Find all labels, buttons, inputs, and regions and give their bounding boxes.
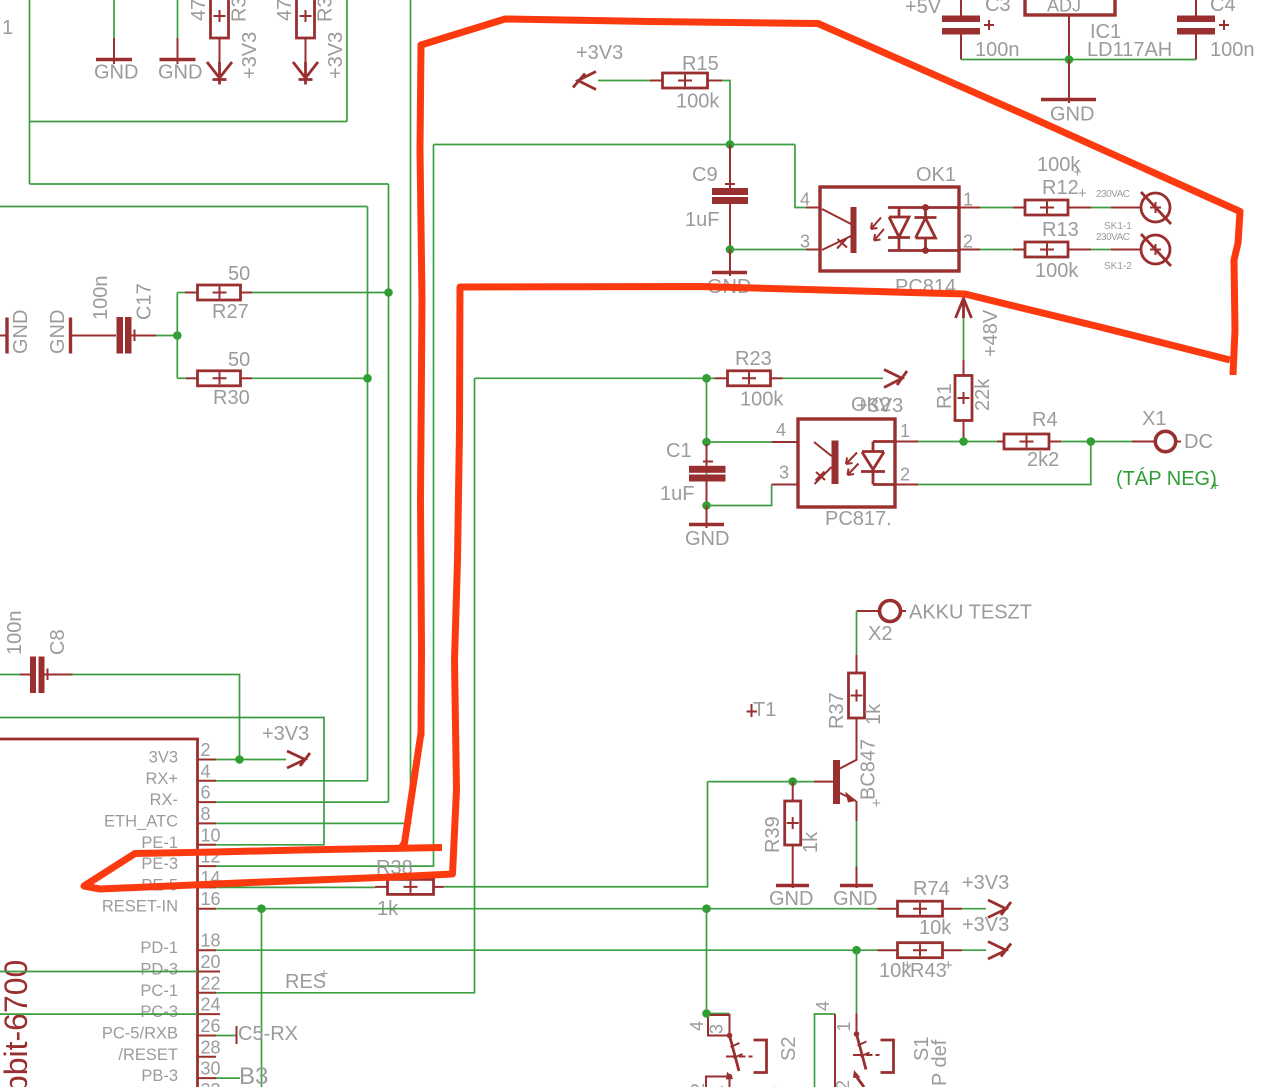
svg-text:50: 50: [228, 349, 250, 371]
capacitor C17: [117, 317, 157, 354]
junction RESET node: [257, 904, 266, 913]
wire R27 to bus: [252, 292, 389, 294]
svg-text:+3V3: +3V3: [262, 723, 309, 745]
svg-text:+: +: [1073, 164, 1082, 181]
svg-text:PE-3: PE-3: [141, 855, 178, 873]
svg-text:Rabbit-6700: Rabbit-6700: [0, 960, 34, 1087]
optocoupler OK2 PC817: [772, 419, 895, 507]
svg-text:C8: C8: [47, 629, 69, 655]
wire R12 to SK1-1: [1091, 207, 1140, 209]
svg-text:T1: T1: [753, 699, 776, 721]
svg-text:GND: GND: [94, 62, 138, 84]
svg-text:PB-3: PB-3: [141, 1067, 178, 1085]
svg-text:ADJ: ADJ: [1047, 0, 1081, 16]
svg-text:3: 3: [779, 463, 789, 483]
junction C9 bottom node: [726, 245, 735, 254]
wire drop to OK1 pin4: [795, 145, 806, 208]
resistor R23: [707, 371, 783, 386]
resistor R12: [1013, 200, 1091, 215]
wire R13 to SK1-2: [1091, 249, 1140, 251]
svg-text:R4: R4: [1032, 409, 1058, 431]
svg-text:50: 50: [228, 263, 250, 285]
svg-text:AKKU TESZT: AKKU TESZT: [909, 602, 1032, 624]
wire PC-3 row: [0, 1013, 198, 1015]
pin 20 stub: [198, 971, 221, 973]
optocoupler OK1 PC814: [806, 187, 959, 271]
svg-text:C9: C9: [692, 164, 718, 186]
svg-text:100n: 100n: [90, 276, 112, 321]
svg-text:+3V3: +3V3: [239, 32, 261, 79]
svg-text:BC847: BC847: [858, 739, 880, 800]
svg-text:22k: 22k: [972, 378, 994, 411]
wire vertical x388.5 to RX-: [388, 184, 390, 802]
capacitor C3: [942, 0, 994, 60]
junction R74-S2 node: [702, 904, 711, 913]
resistor R31 top (cut off): [211, 0, 229, 62]
wire PD-1 row: [216, 949, 878, 951]
svg-text:R31: R31: [229, 0, 251, 22]
junction R23 node: [702, 374, 711, 383]
svg-text:LD117AH: LD117AH: [1087, 39, 1172, 61]
ground GND top 2: [160, 0, 196, 64]
svg-text:GND: GND: [769, 888, 813, 910]
svg-text:3: 3: [707, 1024, 727, 1034]
svg-text:DC: DC: [1184, 431, 1213, 453]
junction C1 bottom node: [702, 501, 711, 510]
svg-text:+: +: [1211, 477, 1219, 493]
svg-text:R15: R15: [682, 53, 719, 75]
svg-text:24: 24: [201, 995, 221, 1015]
wire C3-ADJ-C4 ground rail: [961, 59, 1196, 61]
svg-text:R39: R39: [762, 816, 784, 853]
svg-text:GND: GND: [1050, 104, 1094, 126]
svg-text:100k: 100k: [1035, 260, 1079, 282]
wire box right edge top-left: [346, 0, 348, 122]
origin cross T1: [747, 704, 758, 717]
wire horizontal y206.5: [0, 206, 368, 208]
wire C1 bottom to OK2 pin3: [707, 485, 772, 506]
transistor BC847 T1: [833, 759, 858, 821]
svg-text:+: +: [944, 957, 953, 974]
junction C1 top node: [702, 438, 711, 447]
junction R15 node: [726, 140, 735, 149]
supply +3V3 down arrow 1: [207, 62, 232, 85]
highlighter annotation left tip and inner loop: [84, 287, 1230, 890]
svg-text:RX+: RX+: [145, 770, 178, 788]
svg-text:ETH_ATC: ETH_ATC: [104, 812, 178, 830]
pin 28 stub: [198, 1056, 217, 1058]
wire C1 top to OK2 pin4: [707, 441, 772, 443]
pin 14 stub: [198, 886, 217, 888]
wire box bottom edge top-left: [30, 121, 348, 123]
svg-text:SK1-2: SK1-2: [1104, 261, 1132, 272]
resistor R1: [955, 360, 972, 442]
svg-text:+3V3: +3V3: [856, 395, 903, 417]
wire PE-5 to R38: [216, 886, 375, 888]
wire PD-3 row: [0, 971, 198, 973]
svg-text:RX-: RX-: [150, 791, 178, 809]
junction C17 node: [173, 331, 182, 340]
svg-text:2k2: 2k2: [1027, 449, 1059, 471]
junction base node: [788, 777, 797, 786]
svg-text:+48V: +48V: [980, 309, 1002, 357]
svg-text:2: 2: [201, 740, 211, 760]
resistor R74: [878, 901, 963, 916]
pin 12 stub: [198, 865, 217, 867]
svg-text:8: 8: [201, 804, 211, 824]
wire horizontal y184: [30, 183, 389, 185]
svg-text:26: 26: [201, 1016, 221, 1036]
pin 22 stub: [198, 992, 217, 994]
svg-text:R13: R13: [1042, 219, 1079, 241]
wire S2 drop: [706, 909, 708, 1014]
svg-text:/RESET: /RESET: [118, 1046, 178, 1064]
svg-text:100n: 100n: [4, 611, 26, 656]
pin 30 stub: [198, 1077, 217, 1079]
wire to R30: [177, 377, 186, 379]
ground GND emitter: [840, 884, 873, 887]
svg-text:4: 4: [813, 1001, 833, 1011]
svg-text:OK1: OK1: [916, 164, 956, 186]
wire PC-1 net horizontal y378: [475, 377, 707, 379]
svg-text:R37: R37: [826, 692, 848, 729]
highlighter annotation lower-left loop: [400, 733, 421, 849]
resistor R30: [186, 371, 252, 386]
svg-text:2: 2: [900, 465, 910, 485]
wire C9 to OK1 pin3: [730, 249, 806, 251]
junction S2 node: [702, 1009, 711, 1018]
svg-text:R23: R23: [735, 348, 772, 370]
wire OK1 pin1 to R12: [959, 207, 1013, 209]
supply +3V3 down arrow 2: [293, 62, 318, 85]
supply +3V3 left arrow near R15: [573, 72, 650, 90]
svg-text:1: 1: [834, 1021, 854, 1031]
pin 8 stub: [198, 822, 217, 824]
svg-text:RESET-IN: RESET-IN: [102, 898, 178, 916]
junction X1 node: [1087, 437, 1096, 446]
svg-text:R32: R32: [315, 0, 337, 22]
resistor R15: [650, 73, 722, 88]
wire base net: [708, 781, 834, 783]
supply +48V arrow: [956, 299, 972, 361]
svg-text:C4: C4: [1210, 0, 1236, 16]
capacitor C8: [0, 657, 73, 694]
net tick C5-RX: [236, 1026, 238, 1044]
pin 24 stub: [198, 1013, 221, 1015]
svg-text:GND: GND: [833, 888, 877, 910]
svg-text:2: 2: [833, 1080, 853, 1087]
svg-text:4: 4: [201, 761, 211, 781]
svg-text:GND: GND: [685, 528, 729, 550]
resistor R39: [785, 782, 801, 888]
wire OK2 pin1 to R1 node: [895, 441, 997, 443]
svg-text:1k: 1k: [863, 703, 885, 725]
svg-text:32: 32: [201, 1080, 221, 1087]
svg-text:4: 4: [800, 190, 810, 210]
supply +3V3 arrow R43: [988, 942, 1011, 960]
svg-text:SK1-1: SK1-1: [1104, 221, 1132, 232]
ground GND under IC1: [1041, 60, 1096, 104]
regulator IC1 LD117AH: [1025, 0, 1115, 60]
wire R43 to arrow: [962, 949, 986, 951]
capacitor C9: [712, 145, 748, 250]
svg-text:PE-1: PE-1: [141, 834, 178, 852]
ground GND left side 2 (rotated): [71, 318, 117, 354]
wire X1 stub: [1132, 441, 1155, 443]
svg-text:(TÁP NEG): (TÁP NEG): [1116, 467, 1217, 490]
connector X1: [1155, 431, 1181, 451]
svg-text:10: 10: [201, 825, 221, 845]
wire emitter to GND: [856, 821, 858, 888]
svg-text:R1: R1: [934, 383, 956, 409]
resistor R32 top (cut off): [297, 0, 315, 62]
svg-text:X1: X1: [1142, 408, 1166, 430]
svg-text:+: +: [1078, 185, 1087, 202]
svg-text:C1: C1: [666, 440, 692, 462]
svg-text:+5V: +5V: [905, 0, 942, 18]
svg-text:R43: R43: [910, 960, 947, 982]
svg-text:10k: 10k: [919, 917, 952, 939]
ground GND under C9: [712, 250, 747, 277]
wire R30 to bus: [252, 377, 368, 379]
wire RESET-IN row: [216, 908, 878, 910]
svg-text:1: 1: [2, 17, 13, 39]
ground GND R39: [776, 884, 809, 887]
connector X2: [857, 601, 907, 622]
svg-text:R74: R74: [913, 878, 950, 900]
svg-text:3V3: 3V3: [149, 749, 178, 767]
ground GND top 1: [96, 0, 132, 64]
wire RESET drop: [261, 909, 263, 1087]
svg-text:28: 28: [201, 1037, 221, 1057]
highlighter annotation outer path: [420, 19, 1240, 736]
resistor R37: [849, 673, 865, 759]
svg-text:100n: 100n: [975, 39, 1020, 61]
switch S2: [706, 1014, 767, 1087]
junction R43-S1 node: [852, 946, 861, 955]
IC U1 Rabbit-6700 body: [0, 739, 198, 1087]
switch S1: [815, 1014, 894, 1087]
wire PC-1 net vertical x474.5: [216, 378, 475, 993]
wire pin26 stub net: [216, 1035, 237, 1037]
wire base to R38: [444, 782, 708, 887]
svg-text:C5-RX: C5-RX: [238, 1023, 298, 1045]
supply arrow right of R23: [884, 370, 907, 388]
ground GND left side 1 (rotated): [0, 318, 7, 354]
svg-text:16: 16: [201, 889, 221, 909]
svg-text:20: 20: [201, 952, 221, 972]
svg-text:+: +: [903, 957, 912, 974]
svg-text:1: 1: [900, 421, 910, 441]
svg-text:PC-1: PC-1: [140, 982, 178, 1000]
wire PE-1 net: [0, 718, 324, 845]
wire X2 to R37: [856, 611, 858, 673]
wire S1 drop: [856, 950, 858, 1013]
wire 3V3 pin to arrow: [216, 759, 286, 761]
junction R1 bottom node: [959, 437, 968, 446]
capacitor C4: [1177, 0, 1229, 60]
svg-text:470: 470: [188, 0, 210, 21]
wire R4 to X1: [1061, 441, 1132, 443]
ground GND under C1: [689, 506, 724, 529]
wire x706.5 riser: [706, 378, 708, 505]
svg-text:C3: C3: [985, 0, 1011, 16]
svg-text:X2: X2: [868, 623, 892, 645]
pin 10 stub: [198, 844, 217, 846]
wire RX+: [216, 780, 368, 782]
resistor R43: [878, 943, 963, 958]
wire pin30 stub net: [216, 1077, 240, 1079]
svg-text:3: 3: [800, 232, 810, 252]
junction R30 node: [363, 374, 372, 383]
wire C17 riser: [176, 293, 178, 379]
wire RX-: [216, 801, 389, 803]
svg-text:PC-3: PC-3: [140, 1003, 178, 1021]
svg-text:100k: 100k: [740, 389, 784, 411]
pin 26 stub: [198, 1035, 217, 1037]
svg-text:+3V3: +3V3: [962, 872, 1009, 894]
svg-text:2: 2: [688, 1083, 708, 1087]
wire PE-3 net vertical x433.5: [216, 145, 434, 867]
svg-text:100n: 100n: [1210, 39, 1255, 61]
svg-text:C17: C17: [134, 283, 156, 320]
svg-text:100k: 100k: [676, 91, 720, 113]
supply +3V3 arrow at pin2: [287, 751, 310, 768]
svg-text:230VAC: 230VAC: [1096, 189, 1130, 200]
resistor R38: [375, 879, 444, 894]
svg-text:R27: R27: [212, 301, 249, 323]
resistor R4: [997, 434, 1061, 449]
wire ETH_ATC vertical x410.5: [216, 0, 411, 823]
svg-text:GND: GND: [47, 310, 69, 354]
svg-text:PD-3: PD-3: [140, 961, 178, 979]
supply +3V3 arrow R74: [988, 900, 1011, 918]
svg-text:PD-1: PD-1: [140, 939, 178, 957]
svg-text:30: 30: [201, 1059, 221, 1079]
svg-text:GND: GND: [158, 62, 202, 84]
svg-text:GND: GND: [10, 310, 32, 354]
wire C8 to 3V3 pin: [73, 675, 240, 760]
wire R23 to arrow: [783, 377, 884, 379]
svg-text:18: 18: [201, 931, 221, 951]
wire R15 to net: [722, 81, 730, 145]
pin 6 stub: [198, 801, 217, 803]
junction 3V3 node: [235, 755, 244, 764]
connector SK1-2: [1141, 234, 1171, 266]
wire left vertical bus: [29, 0, 31, 184]
junction R27 node: [384, 288, 393, 297]
svg-text:230VAC: 230VAC: [1096, 232, 1130, 243]
wire R74 to arrow: [962, 908, 986, 910]
pin 2 stub: [198, 759, 217, 761]
svg-text:1uF: 1uF: [660, 483, 694, 505]
svg-text:+: +: [320, 965, 328, 981]
svg-text:470: 470: [274, 0, 296, 21]
svg-text:4: 4: [776, 420, 786, 440]
wire OK1 pin2 to R13: [959, 249, 1013, 251]
pin 16 stub: [198, 908, 217, 910]
svg-text:R30: R30: [213, 387, 250, 409]
wire C17 to junction: [156, 335, 177, 337]
resistor R27: [185, 285, 252, 300]
junction ADJ node: [1065, 55, 1074, 64]
svg-text:4: 4: [687, 1021, 707, 1031]
svg-text:P def: P def: [929, 1039, 951, 1086]
svg-text:+3V3: +3V3: [576, 42, 623, 64]
capacitor C1: [689, 444, 726, 506]
svg-text:+3V3: +3V3: [962, 914, 1009, 936]
svg-text:1k: 1k: [800, 831, 822, 853]
pin 4 stub: [198, 780, 217, 782]
svg-text:22: 22: [201, 973, 221, 993]
wire vertical x367.5 to RX+: [367, 207, 369, 782]
svg-text:+: +: [872, 795, 881, 812]
wire to R27: [177, 292, 185, 294]
wire X1 node to OK2 pin2: [895, 442, 1091, 485]
svg-text:PC-5/RXB: PC-5/RXB: [102, 1025, 178, 1043]
svg-text:+3V3: +3V3: [325, 32, 347, 79]
svg-text:6: 6: [201, 783, 211, 803]
resistor R13: [1013, 242, 1091, 257]
svg-text:PC817.: PC817.: [825, 508, 892, 530]
pin 18 stub: [198, 949, 217, 951]
svg-text:S2: S2: [778, 1037, 800, 1061]
connector SK1-1: [1141, 192, 1171, 224]
wire net y144.5: [434, 144, 796, 146]
svg-text:1uF: 1uF: [685, 209, 719, 231]
